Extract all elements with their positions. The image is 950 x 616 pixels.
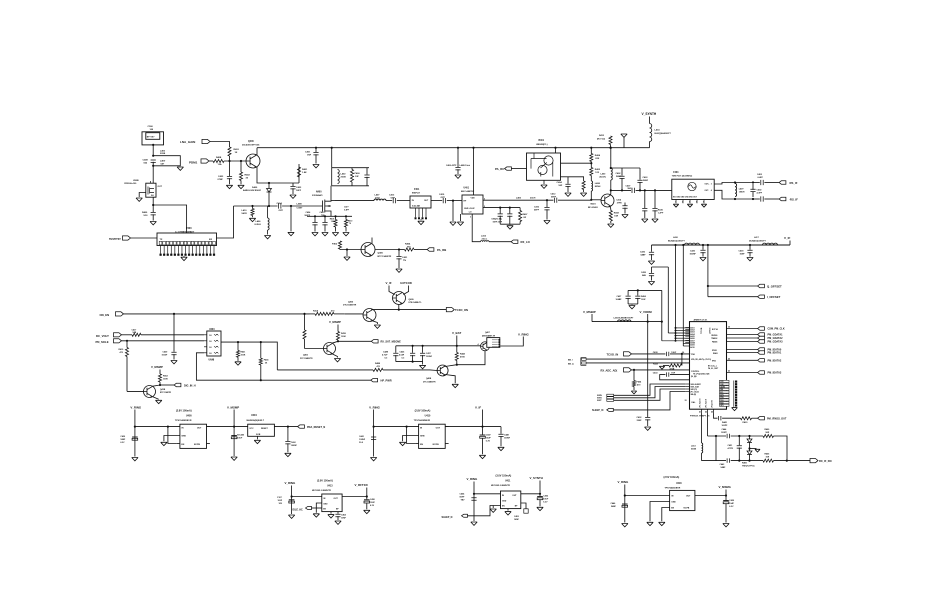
svg-text:1.2FF: 1.2FF [658, 213, 664, 215]
svg-text:L412: L412 [481, 235, 487, 238]
transistor N400 [322, 197, 332, 214]
L409 label [297, 203, 304, 210]
svg-text:0.4FF: 0.4FF [344, 208, 350, 211]
R401 label [302, 168, 308, 174]
svg-text:V_RING: V_RING [369, 405, 381, 409]
svg-text:GND: GND [502, 501, 507, 503]
U411 pin texts [502, 495, 518, 508]
svg-text:RESET: RESET [261, 428, 268, 430]
wire [422, 355, 424, 362]
wire [753, 198, 760, 200]
svg-text:Q40B: Q40B [426, 377, 432, 380]
wire [509, 223, 511, 226]
wire [722, 417, 740, 419]
wire [177, 443, 180, 445]
Q407 pin 4 [478, 343, 480, 346]
wire [398, 250, 400, 257]
svg-text:PAB05: PAB05 [712, 341, 717, 344]
svg-text:PM_IDATA1: PM_IDATA1 [768, 352, 782, 355]
wire Q400 emitter [257, 167, 299, 183]
svg-text:R402: R402 [245, 174, 251, 177]
reference box C500 [142, 132, 164, 145]
ground [631, 391, 636, 394]
svg-text:R409: R409 [742, 462, 748, 465]
svg-text:(3.0V 150mA): (3.0V 150mA) [496, 475, 512, 478]
wire [644, 210, 646, 218]
capacitor C436 [649, 252, 654, 254]
svg-text:L413: L413 [691, 445, 696, 448]
V_RING net label e [518, 332, 530, 336]
wire [412, 355, 414, 362]
wire mid bus [708, 435, 727, 437]
svg-text:L410: L410 [242, 209, 248, 212]
svg-text:R502: R502 [163, 376, 169, 378]
svg-text:94B: 94B [642, 274, 646, 277]
resistor R434 [669, 364, 682, 367]
junction [167, 426, 169, 428]
C402c label [757, 189, 763, 195]
L40Y label [739, 188, 745, 194]
resistor R408 [213, 159, 224, 162]
svg-text:BB_Q: BB_Q [568, 363, 574, 365]
svg-text:U400: U400 [186, 415, 192, 418]
svg-text:6.3V: 6.3V [370, 505, 375, 507]
svg-text:1x GTM8S00MBXT: 1x GTM8S00MBXT [175, 232, 195, 234]
connector RS_IF [779, 181, 786, 184]
wire [260, 365, 262, 380]
junction [674, 244, 676, 246]
wire Q405a base [305, 348, 324, 350]
C444 label [721, 428, 728, 434]
svg-text:Q405: Q405 [303, 354, 309, 357]
wire Q405a emitter [332, 354, 338, 358]
capacitor C403c [524, 509, 528, 513]
L400 label [160, 149, 166, 155]
wire [422, 346, 424, 353]
R400c label [765, 428, 771, 434]
wire [509, 216, 511, 225]
svg-text:PM_GDATA3: PM_GDATA3 [768, 341, 784, 344]
svg-text:9BL(B): 9BL(B) [691, 394, 697, 396]
wire drop 291 [290, 206, 292, 231]
C416 label [534, 206, 540, 212]
wire C448 drop [500, 427, 502, 434]
U407 right texts [711, 328, 719, 362]
R404b label [405, 243, 411, 249]
wire U410 EN [407, 427, 416, 444]
svg-text:7PAB02: 7PAB02 [711, 337, 717, 340]
wire V_MSMP vert [233, 410, 235, 457]
svg-text:DTC114EE/TR: DTC114EE/TR [300, 357, 313, 360]
svg-text:RX_ADC_AD(: RX_ADC_AD( [601, 368, 618, 372]
svg-text:V_RING: V_RING [467, 477, 479, 481]
wire DIG_IN [160, 384, 174, 386]
wire ON rail [124, 313, 310, 315]
svg-text:4.7PE: 4.7PE [728, 447, 734, 450]
capacitor C407 [632, 188, 634, 193]
R444 label [460, 353, 466, 359]
wire [207, 426, 210, 428]
svg-text:RX_LO: RX_LO [521, 240, 531, 244]
wire U413 supply [291, 486, 293, 515]
junction [134, 426, 136, 428]
wire R435 drop [654, 190, 656, 208]
svg-text:OUT: OUT [686, 496, 691, 498]
svg-text:10F: 10F [355, 176, 359, 178]
svg-text:SHB: SHB [420, 436, 425, 438]
U413 label [312, 485, 333, 492]
wire [649, 142, 651, 148]
ground [343, 233, 349, 236]
ground [370, 458, 376, 461]
resistor R406 [334, 220, 337, 228]
svg-text:D400: D400 [252, 186, 258, 189]
ground [364, 510, 370, 513]
svg-text:3.0TCXD: 3.0TCXD [400, 281, 412, 285]
svg-text:R40B: R40B [216, 156, 222, 159]
junction [725, 494, 727, 496]
svg-text:V_VODM: V_VODM [640, 310, 653, 314]
svg-text:35: 35 [728, 327, 730, 329]
svg-text:C403: C403 [296, 186, 302, 189]
L400 label [516, 197, 522, 200]
wire [591, 314, 593, 322]
resistor R402b [590, 168, 593, 176]
wire [519, 222, 521, 225]
connector PDM1 [201, 159, 209, 163]
svg-text:TC4I: TC4I [691, 353, 696, 356]
svg-text:PM_IDATA3: PM_IDATA3 [768, 372, 782, 375]
ground [471, 522, 477, 525]
Q405a label [300, 354, 313, 360]
svg-text:U413: U413 [327, 485, 333, 488]
wire [731, 460, 763, 462]
wire [414, 249, 427, 251]
U400 label [186, 415, 192, 418]
connector DC_VOLT [114, 333, 122, 337]
junction [472, 147, 474, 149]
transistor Q405a [324, 343, 336, 355]
F404 pin texts [673, 184, 712, 199]
inductor L406 [268, 218, 270, 230]
svg-text:470: 470 [637, 384, 641, 387]
wire [314, 224, 316, 231]
svg-text:18V: 18V [279, 503, 283, 505]
wire right loop [774, 436, 788, 461]
ground [285, 453, 291, 456]
wire [314, 216, 316, 222]
svg-text:LO: LO [469, 212, 472, 214]
svg-text:BF? IN?: BF? IN? [147, 137, 155, 139]
connector PM_GDATA2 [758, 336, 765, 339]
wire C404b drop [337, 512, 339, 514]
wire U411 gnd [507, 509, 509, 511]
junction [637, 289, 639, 291]
junction [610, 167, 612, 169]
svg-text:V_RING: V_RING [618, 480, 630, 484]
wire Q40B base stub [430, 369, 437, 372]
wire [752, 192, 754, 198]
diode D401a [747, 439, 752, 443]
IC P400 [157, 233, 217, 246]
svg-text:102: 102 [331, 221, 334, 223]
resistor R41A [315, 312, 334, 315]
junction [752, 198, 754, 200]
inductor L414 [650, 124, 652, 142]
R41A label [313, 309, 335, 312]
svg-text:V_MSMP: V_MSMP [329, 320, 341, 324]
wire [647, 314, 649, 322]
U418 pin texts [671, 496, 691, 510]
svg-text:6.4FF: 6.4FF [758, 176, 764, 179]
svg-text:C421: C421 [320, 211, 326, 214]
pin 42 [728, 370, 730, 373]
ground [723, 524, 729, 527]
C430b label [370, 498, 376, 507]
svg-text:IPB3: IPB3 [712, 360, 716, 362]
wire [335, 227, 337, 232]
wire C436 drop [651, 245, 653, 252]
svg-text:10UF: 10UF [486, 438, 492, 440]
wire IF supply rail [652, 244, 791, 246]
wire U401 VDD [473, 148, 475, 195]
U413 pin texts [323, 498, 339, 511]
svg-text:R410: R410 [348, 220, 353, 223]
svg-text:R401: R401 [302, 168, 308, 171]
wire bus d long [661, 290, 663, 340]
V_IF net label c [475, 405, 481, 409]
svg-text:NC/FB: NC/FB [194, 444, 201, 446]
svg-text:C432: C432 [637, 416, 643, 419]
resistor R421 [236, 350, 239, 357]
svg-text:F401: F401 [414, 188, 420, 191]
U400 pin texts [181, 428, 202, 446]
U407 rot pin c [712, 400, 714, 407]
svg-text:RX_SAT_MSONE: RX_SAT_MSONE [381, 341, 402, 344]
resistor R40B [373, 368, 383, 371]
wire SIMO [614, 387, 686, 398]
Q400b label [378, 252, 392, 258]
svg-text:B401: B401 [539, 139, 545, 142]
junction [748, 447, 750, 449]
R400 label [142, 211, 148, 217]
svg-text:C408: C408 [143, 159, 149, 162]
svg-text:Q41B: Q41B [160, 388, 166, 391]
wire PM_GDATA3 [727, 341, 758, 343]
svg-text:23X2484/1: 23X2484/1 [312, 194, 323, 197]
C402 label [291, 441, 298, 447]
svg-text:R418: R418 [341, 332, 347, 335]
junction [707, 244, 709, 246]
capacitor C406 [151, 160, 156, 162]
svg-text:U404: U404 [251, 414, 257, 417]
wire U400 SHB [164, 436, 180, 442]
ground [322, 233, 328, 236]
junction [752, 181, 754, 183]
svg-text:R408: R408 [614, 212, 620, 215]
wire U401 gnd stub [460, 214, 462, 221]
svg-text:122: 122 [595, 172, 599, 174]
wire [324, 224, 326, 231]
RX_ADC net label [601, 368, 618, 372]
wire [651, 275, 653, 280]
C500 pin text [147, 137, 155, 139]
R410 label [348, 220, 353, 226]
svg-text:22nm: 22nm [482, 238, 488, 240]
connector CSM_PM_CLK [758, 327, 765, 330]
wire bus a [667, 267, 669, 333]
svg-text:56R: 56R [766, 432, 770, 434]
svg-text:Q407: Q407 [485, 331, 491, 334]
IC U413 [322, 494, 342, 512]
capacitor C420d [723, 501, 729, 504]
svg-text:SIMT: SIMT [597, 400, 602, 402]
connector PDA_RESET_N [298, 425, 305, 428]
junction [748, 435, 750, 437]
R408 label [216, 156, 222, 166]
svg-text:GND: GND [323, 504, 328, 506]
svg-text:56PF: 56PF [551, 196, 557, 198]
junction [237, 341, 239, 343]
wire [482, 427, 484, 435]
wire [519, 208, 521, 211]
R40B label [375, 362, 381, 368]
PM_IPXOS_OUT net label [767, 418, 787, 421]
ground [608, 224, 614, 227]
connector SLEEP_N [462, 514, 468, 517]
svg-text:Q400: Q400 [378, 252, 384, 255]
svg-text:6.3V: 6.3V [486, 441, 491, 443]
ground [647, 522, 653, 525]
wire [260, 342, 262, 358]
wire [633, 387, 635, 391]
wire [152, 162, 154, 183]
C420b label [690, 250, 697, 256]
ground [288, 515, 294, 518]
wire [252, 216, 254, 218]
svg-text:OPF: OPF [441, 197, 446, 199]
PM_IDATA1 net label [768, 352, 782, 355]
svg-text:TCXO_IN: TCXO_IN [607, 352, 619, 356]
svg-text:3: 3 [470, 216, 471, 218]
svg-text:46: 46 [728, 357, 730, 360]
ground [335, 521, 341, 524]
L414 label [655, 129, 672, 136]
capacitor C404c [565, 184, 570, 186]
V_MSBIP net label [583, 310, 596, 314]
svg-text:DTC114EE/TR: DTC114EE/TR [423, 380, 436, 383]
wire PM_IDATA3 [727, 372, 758, 374]
svg-text:PDM1: PDM1 [189, 161, 198, 165]
junction [654, 189, 656, 191]
connector PA_RC [505, 167, 512, 170]
wire Q400b base [340, 248, 361, 251]
wire U400 supply [134, 410, 136, 457]
wire Q406 collector [371, 308, 373, 311]
connector PM_IDATA0 [758, 348, 765, 351]
capacitor C437 [420, 353, 425, 355]
U410 incap label [359, 435, 366, 444]
svg-text:-RS_IF: -RS_IF [789, 198, 798, 202]
junction [554, 147, 556, 149]
resistor L410 [251, 209, 254, 216]
svg-text:C427: C427 [617, 295, 623, 298]
resistor R405c [763, 459, 774, 462]
capacitor C424 [312, 223, 317, 225]
svg-text:100PF: 100PF [722, 425, 729, 427]
svg-text:C430: C430 [120, 435, 126, 438]
wire [152, 145, 154, 156]
svg-text:V_SYNTH: V_SYNTH [530, 476, 543, 480]
junction [314, 215, 316, 217]
wire Q415 emitter [153, 397, 159, 400]
junction [412, 345, 414, 347]
wire to P400 [153, 205, 186, 233]
U418 label [665, 482, 683, 489]
connector PM_GDATA3 [758, 340, 765, 343]
svg-text:R400: R400 [765, 428, 771, 431]
wire N401 feed [610, 148, 612, 168]
svg-text:RX_IF_DO: RX_IF_DO [819, 459, 832, 463]
U407 left top pins [685, 326, 695, 348]
RS_IF net label [790, 181, 798, 185]
resistor R404b [405, 248, 415, 251]
connector I_OFFSET [758, 295, 765, 298]
TCXD net label [400, 281, 412, 285]
svg-text:VCC: VCC [249, 428, 254, 430]
svg-text:L414: L414 [655, 129, 661, 132]
junction [610, 147, 612, 149]
svg-text:(82nH): (82nH) [600, 177, 607, 179]
R405c label [765, 453, 771, 459]
V_RFTXD net label [355, 483, 368, 487]
wire Q40B emitter [445, 375, 455, 384]
svg-text:P400: P400 [186, 227, 192, 230]
PTRON label [690, 416, 710, 418]
svg-text:CONT: CONT [297, 208, 304, 210]
svg-text:5HF: 5HF [628, 188, 633, 190]
C420d label [729, 499, 735, 508]
PA_RB net label [437, 248, 446, 252]
junction [398, 309, 400, 311]
wire [764, 182, 779, 184]
wire [386, 200, 392, 202]
wire RF line [234, 205, 278, 207]
svg-text:552: 552 [144, 163, 148, 165]
wire [337, 340, 339, 341]
capacitor C416 [544, 208, 549, 210]
wire [539, 494, 541, 496]
capacitor R435 [652, 209, 657, 211]
svg-text:PN_SOLE: PN_SOLE [96, 340, 109, 344]
junction [366, 495, 368, 497]
svg-text:470: 470 [331, 309, 335, 312]
svg-text:V_SYNTH: V_SYNTH [642, 112, 657, 116]
capacitor C440 [231, 436, 237, 439]
junction [152, 165, 154, 167]
svg-text:R407: R407 [523, 213, 529, 216]
svg-text:2010: 2010 [375, 197, 381, 199]
wire SLEEP_N [468, 506, 501, 516]
wire [229, 161, 231, 176]
connector SLEEP_N [607, 408, 614, 411]
transistor Q400b [361, 243, 375, 257]
wire [735, 198, 753, 200]
capacitor C451 [737, 446, 742, 448]
svg-text:R40B: R40B [375, 362, 381, 365]
V_RING net label U400 [130, 405, 142, 409]
wire R401 branch [298, 164, 300, 183]
